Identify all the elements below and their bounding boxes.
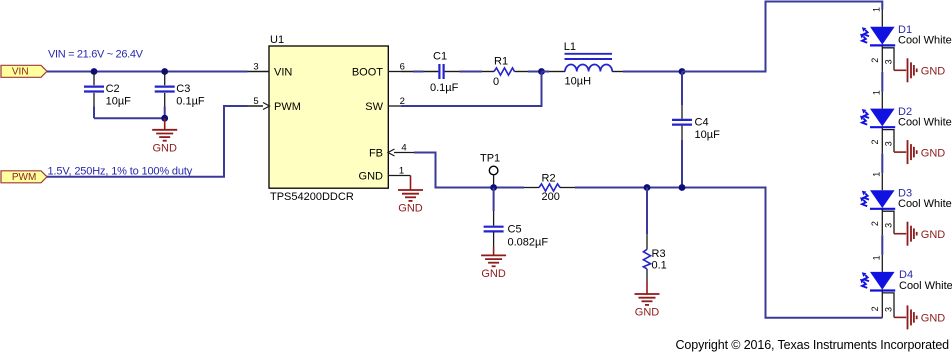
svg-text:200: 200	[542, 191, 560, 203]
resistor R2	[524, 173, 575, 204]
svg-text:3: 3	[884, 307, 894, 312]
svg-text:1: 1	[872, 7, 882, 12]
test point TP1	[480, 153, 500, 188]
svg-text:GND: GND	[921, 313, 946, 325]
svg-text:PWM: PWM	[12, 172, 36, 183]
node TP1 junction	[490, 184, 497, 191]
svg-text:1.5V, 250Hz, 1% to 100% duty: 1.5V, 250Hz, 1% to 100% duty	[48, 165, 193, 177]
wire output node to LED string top	[682, 2, 882, 72]
wire SW node down to SW pin	[401, 72, 542, 107]
ground GND below R3	[635, 281, 660, 319]
svg-text:3: 3	[884, 141, 894, 146]
svg-text:SW: SW	[365, 101, 383, 113]
svg-text:0.1µF: 0.1µF	[430, 82, 459, 94]
ground GND below C5	[481, 247, 506, 280]
svg-text:FB: FB	[369, 148, 383, 160]
svg-text:VIN = 21.6V ~ 26.4V: VIN = 21.6V ~ 26.4V	[48, 49, 144, 61]
svg-text:VIN: VIN	[274, 67, 292, 79]
wire D1 to D2	[881, 72, 883, 92]
port tag PWM	[1, 171, 47, 183]
node SW junction	[538, 68, 545, 75]
svg-text:VIN: VIN	[12, 66, 29, 77]
svg-text:C4: C4	[695, 117, 709, 129]
svg-text:PWM: PWM	[274, 101, 301, 113]
LED D1	[860, 7, 952, 72]
LED D3	[860, 172, 952, 236]
svg-text:C1: C1	[433, 51, 447, 63]
svg-text:Copyright © 2016, Texas Instru: Copyright © 2016, Texas Instruments Inco…	[676, 338, 950, 352]
wire C4 bottom lead	[681, 140, 683, 188]
svg-text:GND: GND	[481, 268, 506, 280]
svg-text:1: 1	[399, 165, 404, 176]
node VIN-C2 junction	[91, 68, 98, 75]
svg-text:U1: U1	[270, 34, 284, 46]
svg-text:BOOT: BOOT	[352, 67, 383, 79]
svg-text:3: 3	[253, 62, 258, 73]
LED D4	[860, 255, 952, 318]
wire R1 to SW node	[528, 71, 549, 73]
node R3 junction	[644, 184, 651, 191]
svg-text:C5: C5	[508, 224, 522, 236]
LED D2	[860, 90, 952, 154]
svg-text:R1: R1	[494, 56, 508, 68]
wire BOOT to C1	[413, 71, 424, 73]
svg-text:GND: GND	[398, 203, 423, 215]
wire R2 to return loop	[575, 188, 882, 318]
svg-text:Cool White: Cool White	[898, 198, 952, 210]
svg-text:TP1: TP1	[480, 153, 500, 165]
svg-text:2: 2	[870, 221, 880, 226]
pin 5 PWM stub with input arrow	[248, 96, 270, 110]
ground GND below C3	[152, 118, 177, 154]
svg-text:Cool White: Cool White	[898, 117, 952, 129]
resistor R3	[643, 188, 666, 282]
svg-text:3: 3	[884, 59, 894, 64]
ground GND at D4 (sideways)	[894, 305, 945, 329]
svg-text:10µH: 10µH	[565, 76, 592, 88]
wire D2 to D3	[881, 154, 883, 174]
capacitor C2	[84, 72, 131, 108]
svg-text:2: 2	[870, 139, 880, 144]
svg-text:2: 2	[870, 306, 880, 311]
inductor L1	[549, 41, 623, 88]
svg-text:0: 0	[493, 76, 499, 88]
svg-text:1: 1	[872, 90, 882, 95]
pin 3 VIN stub	[248, 62, 270, 73]
wire D3 to D4	[881, 235, 883, 255]
svg-text:C2: C2	[106, 83, 120, 95]
capacitor C3	[155, 72, 205, 108]
svg-text:GND: GND	[152, 142, 177, 154]
ground GND at D2 (sideways)	[894, 140, 945, 164]
svg-text:R3: R3	[652, 248, 666, 260]
svg-text:0.082µF: 0.082µF	[508, 237, 549, 249]
svg-text:5: 5	[253, 96, 258, 107]
wire VIN rail	[47, 71, 248, 73]
svg-text:1: 1	[872, 172, 882, 177]
node C3-GND junction	[161, 115, 168, 122]
node VIN-C3 junction	[161, 68, 168, 75]
op-amp U1 body	[269, 34, 388, 203]
wire C1 to R1	[460, 71, 483, 73]
ground GND at D1 (sideways)	[894, 58, 945, 82]
wire SW node to L1	[542, 71, 550, 73]
port tag VIN	[1, 65, 47, 77]
pin 1 GND stub	[388, 165, 411, 176]
pin 2 SW stub	[388, 96, 405, 107]
svg-text:Cool White: Cool White	[898, 35, 952, 47]
wire C3 bottom lead	[164, 107, 166, 119]
svg-text:Cool White: Cool White	[899, 280, 952, 292]
pin 6 BOOT stub	[388, 62, 405, 73]
wire PWM run	[47, 106, 248, 177]
svg-text:C3: C3	[176, 83, 190, 95]
svg-text:10µF: 10µF	[695, 129, 721, 141]
svg-text:2: 2	[870, 58, 880, 63]
capacitor C5	[484, 188, 549, 249]
svg-text:TPS54200DDCR: TPS54200DDCR	[270, 191, 354, 203]
node output junction at C4	[679, 68, 686, 75]
svg-text:3: 3	[884, 223, 894, 228]
svg-text:L1: L1	[564, 41, 576, 53]
ground GND below U1 pin 1	[398, 176, 423, 215]
svg-text:GND: GND	[921, 229, 946, 241]
svg-text:4: 4	[401, 142, 406, 153]
pin 4 FB stub with input arrow	[388, 142, 414, 156]
svg-text:1: 1	[872, 255, 882, 260]
svg-text:GND: GND	[921, 147, 946, 159]
wire L1 to output node	[623, 71, 682, 73]
svg-text:10µF: 10µF	[106, 95, 132, 107]
node C4-return junction	[679, 184, 686, 191]
resistor R1	[482, 56, 528, 89]
ground GND at D3 (sideways)	[894, 222, 945, 246]
svg-text:GND: GND	[635, 307, 660, 319]
capacitor C1	[401, 51, 460, 95]
capacitor C4	[672, 72, 720, 142]
svg-text:GND: GND	[359, 171, 384, 183]
wire C2-C3 bottom rail	[94, 117, 165, 119]
wire C2 bottom lead	[93, 107, 95, 119]
svg-text:0.1: 0.1	[652, 260, 667, 272]
svg-text:R2: R2	[542, 173, 556, 185]
svg-text:GND: GND	[921, 66, 946, 78]
svg-text:0.1µF: 0.1µF	[176, 95, 205, 107]
wire FB run	[414, 153, 524, 188]
